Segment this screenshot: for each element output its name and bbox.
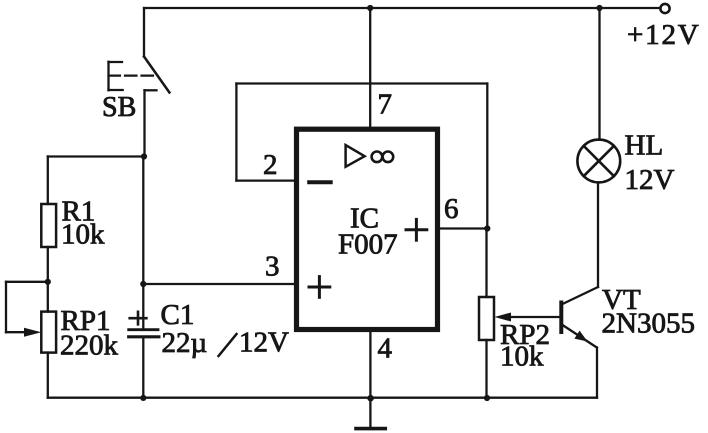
svg-text:10k: 10k [500,341,544,373]
capacitor C1 plates [129,330,159,337]
wire pin3 node down to C1 [142,284,144,328]
transistor VT emitter diagonal [563,325,597,348]
svg-text:4: 4 [378,333,393,365]
wire op-amp pin 6 to node [440,227,487,229]
node top rail / lamp branch [596,5,602,11]
wire node A down to pin3 node [142,157,144,285]
wire emitter down to bottom rail [596,348,598,398]
node A (switch / R1 branch / C1 branch) [141,153,147,159]
RP2 wiper arrowhead [495,313,512,322]
svg-text:3: 3 [265,251,280,283]
wire pin 2 to feedback loop [236,179,294,181]
svg-text:12V: 12V [625,164,675,196]
switch SB fixed contact tick [145,89,157,91]
svg-text:2N3055: 2N3055 [602,308,695,340]
wire from top rail down to switch lever [143,8,145,57]
wire RP2 wiper to transistor base [508,316,560,318]
node pin6 / feedback / RP2 [484,225,490,231]
node pin3 / C1 junction [140,281,146,287]
wire feedback loop top horizontal [236,82,487,84]
wire collector up to lamp [597,183,599,288]
ground stub [369,398,371,427]
wire top rail down to lamp [598,8,600,140]
op-amp triangle gain symbol [346,145,365,167]
svg-text:7: 7 [378,89,393,121]
op-amp infinity symbol [372,152,394,163]
wire left rail down to R1 [47,157,49,205]
resistor R1 body [41,204,56,247]
svg-text:2: 2 [263,149,278,181]
svg-text:6: 6 [444,193,459,225]
wire top supply rail [144,7,660,9]
wire pin 4 to bottom rail [369,330,371,398]
potentiometer RP1 body [41,312,56,353]
wire switch bottom down to node A [143,90,145,156]
node RP2 / bottom rail [484,395,490,401]
node wiper tap on left rail [45,279,51,285]
wire node A left to top of R1 branch [48,155,144,157]
transistor VT base bar [559,303,563,333]
op-amp inverting input minus sign [309,180,331,184]
capacitor C1 polarity + [130,312,147,325]
svg-text:12V: 12V [239,327,289,359]
wire RP1 bottom to bottom rail [47,353,49,398]
svg-text:22µ: 22µ [162,327,208,359]
wire feedback loop left vertical [235,84,237,181]
node top rail / pin7 branch [367,5,373,11]
lamp HL cross [584,146,614,176]
wire pin6 node down to RP2 [485,229,487,298]
RP1 wiper arrowhead [24,328,41,337]
switch SB lever (moving contact) [144,57,169,93]
transistor VT collector diagonal [563,287,599,304]
potentiometer RP2 body [479,297,494,340]
switch SB actuator bracket [109,62,123,90]
wire RP2 bottom to bottom rail [485,340,487,398]
op-amp U1 (IC F007) body [297,129,438,329]
terminal +12V open circle [660,4,669,13]
wire bottom ground rail [48,397,597,399]
wire pin3 node to op-amp pin 3 [143,283,294,285]
svg-text:HL: HL [625,130,664,162]
C1 value fullwidth slash [219,334,237,356]
lamp HL circle [577,140,620,183]
op-amp output plus sign [406,219,427,240]
switch SB dashed link [109,74,156,76]
wire C1 bottom to bottom rail [142,337,144,398]
node C1 / bottom rail [140,395,146,401]
op-amp non-inverting plus sign [309,277,330,298]
svg-text:SB: SB [102,92,136,123]
svg-text:F007: F007 [338,229,398,261]
svg-text:220k: 220k [60,330,119,362]
node pin4 / ground rail [367,395,374,402]
svg-text:+12V: +12V [627,19,701,51]
wire wiper loop: down [5,282,7,332]
svg-text:10k: 10k [61,219,105,251]
wire R1 bottom to RP1 top [47,247,49,312]
transistor VT emitter arrowhead [574,331,587,342]
wire wiper loop: right to RP1 arrow [6,331,30,333]
wire wiper loop: left [6,281,48,283]
wire pin 7 from top rail to op-amp top [369,8,371,127]
ground bar [356,427,385,431]
wire feedback loop right vertical down to pin 6 node [486,84,488,229]
